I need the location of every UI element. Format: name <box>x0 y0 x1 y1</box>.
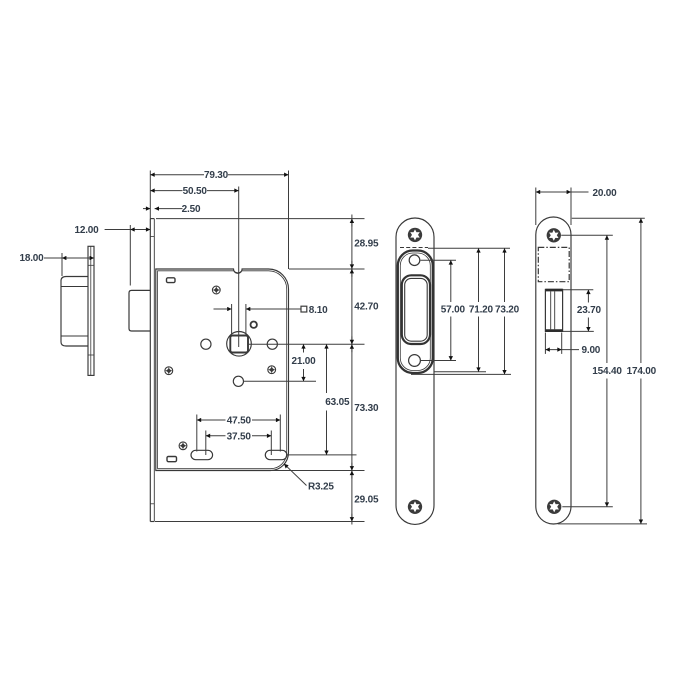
lock faceplate outline <box>536 217 571 524</box>
torx screw top (faceplate) <box>547 228 561 242</box>
strike hole bottom circle <box>409 355 421 367</box>
faceplate tangent tick top <box>150 236 154 238</box>
latch bolt top edge thick <box>545 289 562 292</box>
ext spindle center <box>248 343 365 345</box>
svg-text:9.00: 9.00 <box>582 345 601 356</box>
strike box cover inner <box>400 253 430 371</box>
small ring hole <box>251 322 257 328</box>
faceplate strip top <box>150 218 154 220</box>
dimension 57.00 <box>421 260 457 360</box>
dimension 79.30 <box>150 171 288 270</box>
dimension 73.20 <box>411 248 511 374</box>
svg-text:57.00: 57.00 <box>441 305 466 316</box>
dimension 63.05 <box>326 344 328 455</box>
latch opening inner <box>405 278 428 341</box>
svg-text:18.00: 18.00 <box>19 253 44 264</box>
oval slot right <box>265 450 287 459</box>
faceplate strip right edge <box>153 219 155 522</box>
ext body bottom <box>271 470 365 472</box>
svg-text:28.95: 28.95 <box>354 238 379 249</box>
hidden edge dashed <box>400 247 428 249</box>
svg-text:21.00: 21.00 <box>291 356 316 367</box>
latch bolt inner lines <box>551 291 555 329</box>
oval slot left <box>191 450 213 459</box>
ext body top <box>289 268 365 270</box>
dimension 9.00 <box>545 333 579 354</box>
torx screw top (strike) <box>408 228 422 242</box>
screw cross left <box>165 367 173 375</box>
hole right of spindle <box>267 339 277 349</box>
svg-text:2.50: 2.50 <box>182 204 201 215</box>
svg-text:154.40: 154.40 <box>592 366 622 377</box>
strike housing box <box>61 277 88 347</box>
ext faceplate top <box>156 218 365 220</box>
svg-text:79.30: 79.30 <box>204 170 229 181</box>
strike faceplate outline <box>396 218 434 524</box>
svg-text:R3.25: R3.25 <box>308 482 334 493</box>
dimension chain vertical line <box>351 215 353 525</box>
strip tangent tick top <box>88 264 94 266</box>
housing fold line top <box>61 286 88 288</box>
hole below spindle <box>233 376 243 386</box>
slot top-left <box>167 278 176 283</box>
dimension 23.70 <box>563 290 594 332</box>
housing fold line bottom <box>61 335 88 337</box>
svg-text:73.30: 73.30 <box>354 403 379 414</box>
dimension 20.00 <box>536 188 589 226</box>
ext oval center <box>287 454 357 456</box>
latch bolt outline <box>545 289 562 331</box>
screw cross right <box>268 366 276 374</box>
svg-text:73.20: 73.20 <box>495 305 520 316</box>
dimension 47.50 <box>197 415 280 452</box>
strip middle line <box>90 246 92 375</box>
dimension 8.10 square <box>214 304 307 335</box>
dimension 2.50 <box>143 208 183 210</box>
dimension 12.00 <box>105 225 151 286</box>
latch bolt side box <box>129 290 150 331</box>
latch opening outer <box>402 275 430 344</box>
dimension 71.20 <box>428 248 510 372</box>
lock body inner outline <box>158 271 287 469</box>
hole left of spindle <box>201 339 211 349</box>
strike plate edge-on strip <box>88 246 94 375</box>
svg-text:37.50: 37.50 <box>227 431 252 442</box>
dimension 154.40 <box>561 235 613 507</box>
screw cross bottom <box>179 442 187 450</box>
svg-text:71.20: 71.20 <box>469 305 494 316</box>
strip tangent tick bottom <box>88 354 94 356</box>
faceplate strip left edge <box>149 219 151 522</box>
spindle square hole <box>230 336 248 353</box>
slot bottom-left <box>167 457 177 462</box>
dimension 21.00 <box>303 344 305 381</box>
torx screw bottom (strike) <box>408 500 422 514</box>
svg-text:42.70: 42.70 <box>354 301 379 312</box>
svg-text:63.05: 63.05 <box>325 397 350 408</box>
svg-text:8.10: 8.10 <box>309 305 328 316</box>
faceplate strip bottom <box>150 521 154 523</box>
svg-text:20.00: 20.00 <box>593 188 618 199</box>
faceplate tangent tick bottom <box>150 503 154 505</box>
svg-text:23.70: 23.70 <box>577 305 602 316</box>
lock body outer outline <box>156 269 289 471</box>
ext hole below spindle <box>244 380 317 382</box>
latch bolt bottom edge thick <box>545 329 562 332</box>
datum extension lines center view <box>155 219 365 522</box>
strike hole top circle <box>409 255 420 266</box>
torx screw bottom (faceplate) <box>547 500 561 514</box>
radius callout R3.25 <box>284 464 307 486</box>
dimension 37.50 <box>206 431 271 456</box>
svg-text:174.00: 174.00 <box>627 366 657 377</box>
dimension 50.50 <box>150 187 238 348</box>
dimension 18.00 <box>44 253 94 276</box>
strike box cover outer <box>398 251 433 374</box>
spindle circle <box>227 332 252 357</box>
screw cross top <box>212 286 220 294</box>
svg-text:47.50: 47.50 <box>227 416 252 427</box>
ext faceplate bottom <box>155 521 365 523</box>
svg-text:50.50: 50.50 <box>183 186 208 197</box>
magnet hidden dashed rect <box>538 247 569 281</box>
svg-text:29.05: 29.05 <box>354 494 379 505</box>
dimension 174.00 <box>558 218 647 524</box>
svg-text:12.00: 12.00 <box>74 225 99 236</box>
